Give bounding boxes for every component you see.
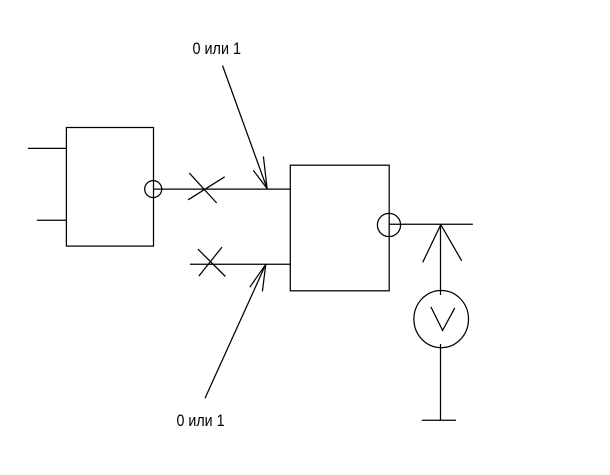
svg-text:0 или 1: 0 или 1 [193, 40, 242, 58]
svg-text:0 или 1: 0 или 1 [177, 412, 225, 430]
